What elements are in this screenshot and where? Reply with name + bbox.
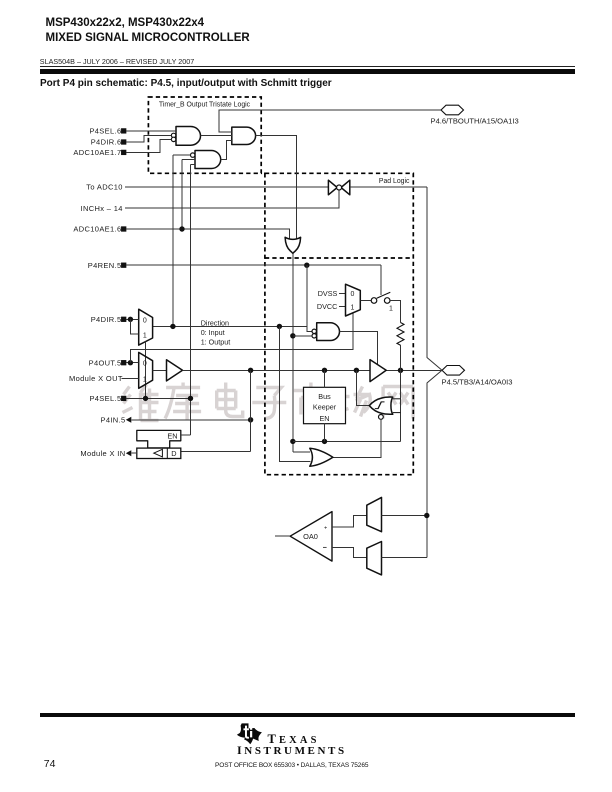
- svg-text:OA0: OA0: [303, 532, 318, 541]
- svg-text:Direction: Direction: [201, 318, 229, 327]
- svg-text:0: 0: [350, 291, 354, 298]
- svg-text:1: Output: 1: Output: [201, 338, 231, 347]
- svg-text:To ADC10: To ADC10: [86, 183, 123, 192]
- svg-text:P4DIR.6: P4DIR.6: [91, 138, 122, 147]
- svg-text:1: 1: [143, 376, 147, 383]
- svg-text:P4.6/TBOUTH/A15/OA1I3: P4.6/TBOUTH/A15/OA1I3: [431, 116, 519, 125]
- svg-text:Pad Logic: Pad Logic: [379, 178, 410, 185]
- svg-text:P4SEL.5: P4SEL.5: [89, 394, 121, 403]
- svg-text:Module X OUT: Module X OUT: [69, 374, 123, 383]
- svg-text:DVSS: DVSS: [318, 289, 338, 298]
- svg-text:D: D: [171, 449, 176, 458]
- svg-text:0: 0: [143, 317, 147, 324]
- svg-text:+: +: [324, 525, 327, 531]
- svg-text:EN: EN: [320, 414, 330, 423]
- svg-text:P4IN.5: P4IN.5: [100, 415, 125, 424]
- svg-text:Timer_B Output Tristate Logic: Timer_B Output Tristate Logic: [159, 101, 251, 108]
- svg-text:1: 1: [143, 332, 147, 339]
- svg-text:P4REN.5: P4REN.5: [88, 261, 122, 270]
- svg-text:P4DIR.5: P4DIR.5: [91, 315, 122, 324]
- svg-text:P4OUT.5: P4OUT.5: [89, 358, 122, 367]
- svg-text:1: 1: [350, 304, 354, 311]
- svg-text:P4SEL.6: P4SEL.6: [89, 127, 121, 136]
- svg-text:EN: EN: [167, 431, 177, 440]
- svg-text:Bus: Bus: [318, 392, 331, 401]
- svg-text:DVCC: DVCC: [317, 302, 337, 311]
- svg-text:ADC10AE1.7: ADC10AE1.7: [73, 148, 121, 157]
- svg-text:0: Input: 0: Input: [201, 328, 225, 337]
- svg-text:Keeper: Keeper: [313, 403, 337, 412]
- svg-text:P4.5/TB3/A14/OA0I3: P4.5/TB3/A14/OA0I3: [442, 377, 513, 386]
- svg-text:INCHx – 14: INCHx – 14: [81, 204, 123, 213]
- svg-text:Module X IN: Module X IN: [80, 449, 125, 458]
- svg-text:1: 1: [389, 305, 393, 312]
- svg-text:ADC10AE1.6: ADC10AE1.6: [73, 225, 121, 234]
- svg-text:0: 0: [143, 361, 147, 368]
